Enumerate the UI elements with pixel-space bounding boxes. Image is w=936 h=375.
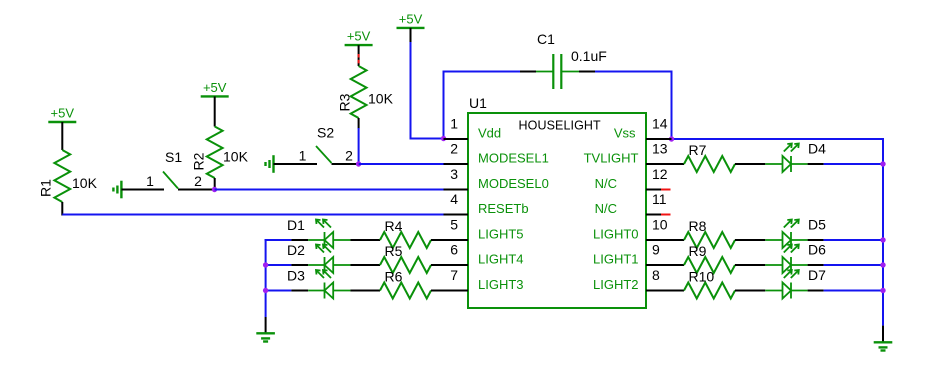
- wire rail to D1: [266, 239, 292, 241]
- svg-text:13: 13: [652, 141, 668, 157]
- svg-text:R1: R1: [38, 179, 54, 197]
- junction node D7/rail: [880, 288, 885, 293]
- IC U1 HOUSELIGHT body: [468, 113, 646, 308]
- svg-text:1: 1: [450, 116, 458, 132]
- svg-text:1: 1: [146, 173, 154, 189]
- LED D5: [765, 217, 826, 249]
- pin 8 (LIGHT2): [593, 267, 684, 292]
- junction node D4/rail: [880, 161, 885, 166]
- svg-text:R8: R8: [689, 218, 707, 234]
- svg-text:R10: R10: [689, 269, 715, 285]
- wire D6 to right rail: [824, 264, 883, 266]
- svg-text:+5V: +5V: [51, 106, 75, 121]
- ground (S1): [113, 181, 121, 199]
- svg-text:R6: R6: [385, 269, 403, 285]
- svg-text:LIGHT4: LIGHT4: [478, 252, 524, 267]
- svg-text:10K: 10K: [368, 91, 394, 107]
- svg-text:4: 4: [450, 191, 458, 207]
- ground (S2): [266, 155, 274, 173]
- wire to pin 3 (MODESEL0): [215, 189, 444, 191]
- pin 3 (MODESEL0): [444, 166, 549, 191]
- svg-text:10: 10: [652, 217, 668, 233]
- resistor R3 10K (with ERC marks): [337, 45, 394, 128]
- wire D5 to right rail: [824, 239, 883, 241]
- power +5V supply P1 (R1): [48, 106, 76, 123]
- junction node pin 1: [441, 136, 446, 141]
- pin 9 (LIGHT1): [593, 242, 684, 267]
- resistor R7: [684, 142, 765, 172]
- svg-text:S2: S2: [317, 125, 334, 141]
- pin 5 (LIGHT5): [444, 217, 524, 242]
- wire rail to ground: [265, 317, 267, 333]
- capacitor C1: [536, 31, 607, 89]
- svg-text:6: 6: [450, 242, 458, 258]
- power +5V supply P4 (above pin 1): [397, 11, 425, 43]
- power +5V supply P3 (R3): [345, 29, 373, 46]
- resistor R6: [350, 269, 468, 299]
- svg-text:R4: R4: [385, 218, 403, 234]
- wire rail to D3: [266, 290, 292, 292]
- svg-text:8: 8: [652, 267, 660, 283]
- pin 4 (RESETb): [444, 191, 529, 216]
- svg-text:S1: S1: [165, 149, 182, 165]
- LED D1: [287, 217, 350, 248]
- svg-text:10K: 10K: [72, 175, 98, 191]
- svg-text:D7: D7: [808, 267, 826, 283]
- svg-text:3: 3: [450, 166, 458, 182]
- svg-text:2: 2: [345, 148, 353, 164]
- wire to pin 2 (MODESEL1): [359, 163, 444, 165]
- wire pin14 node to right ground rail: [672, 139, 885, 326]
- ground (left LED rail): [256, 333, 275, 341]
- junction node D2/rail: [263, 262, 268, 267]
- wire +5V to pin 1 node: [410, 42, 444, 139]
- svg-text:5: 5: [450, 217, 458, 233]
- wire C1 to pin 14 node: [579, 71, 673, 140]
- svg-text:R3: R3: [337, 93, 353, 111]
- svg-text:TVLIGHT: TVLIGHT: [584, 151, 639, 166]
- svg-text:N/C: N/C: [595, 201, 617, 216]
- svg-text:D6: D6: [808, 242, 826, 258]
- svg-text:R7: R7: [689, 142, 707, 158]
- svg-text:9: 9: [652, 242, 660, 258]
- svg-text:Vss: Vss: [614, 126, 636, 141]
- pin 13 (TVLIGHT): [584, 141, 684, 166]
- junction node S2/R3: [356, 161, 361, 166]
- pin 1 (Vdd): [444, 116, 502, 141]
- svg-text:R2: R2: [191, 152, 207, 170]
- wire pin1 node up to C1: [443, 72, 537, 140]
- svg-text:+5V: +5V: [347, 29, 371, 44]
- junction node S1/R2: [212, 187, 217, 192]
- LED D7: [765, 267, 826, 299]
- resistor R8: [684, 218, 765, 248]
- wire D7 to right rail: [824, 290, 883, 292]
- svg-text:Vdd: Vdd: [478, 126, 501, 141]
- wire D4 to right rail: [824, 163, 883, 165]
- junction node D5/rail: [880, 237, 885, 242]
- svg-text:2: 2: [450, 141, 458, 157]
- resistor R2 10K: [191, 96, 249, 190]
- wire R1 to pin 4 (RESETb): [62, 214, 443, 216]
- power +5V supply P2 (R2): [201, 80, 229, 97]
- resistor R1 10K: [38, 122, 98, 216]
- svg-text:LIGHT1: LIGHT1: [593, 252, 639, 267]
- svg-text:C1: C1: [537, 31, 555, 47]
- pin 7 (LIGHT3): [444, 267, 524, 292]
- pin 14 (Vss): [614, 116, 672, 141]
- LED D3: [287, 268, 350, 299]
- svg-text:LIGHT0: LIGHT0: [593, 227, 639, 242]
- svg-text:R9: R9: [689, 243, 707, 259]
- resistor R5: [350, 243, 468, 273]
- svg-text:D2: D2: [287, 242, 305, 258]
- svg-text:+5V: +5V: [399, 11, 423, 26]
- svg-text:D4: D4: [808, 141, 826, 157]
- svg-text:+5V: +5V: [203, 80, 227, 95]
- pin 10 (LIGHT0): [593, 217, 684, 242]
- svg-text:R5: R5: [385, 243, 403, 259]
- LED D2: [287, 242, 350, 273]
- svg-text:7: 7: [450, 267, 458, 283]
- svg-text:2: 2: [194, 173, 202, 189]
- pin 11 (N/C): [595, 191, 671, 216]
- svg-text:D1: D1: [287, 217, 305, 233]
- svg-text:D5: D5: [808, 217, 826, 233]
- svg-text:D3: D3: [287, 268, 305, 284]
- ground (right rail): [874, 342, 893, 350]
- svg-text:N/C: N/C: [595, 176, 617, 191]
- svg-text:LIGHT2: LIGHT2: [593, 277, 639, 292]
- wire R3 to S2 junction: [358, 128, 360, 165]
- pin 2 (MODESEL1): [444, 141, 549, 166]
- pin 12 (N/C): [595, 166, 671, 191]
- switch S2: [274, 125, 359, 165]
- resistor R4: [350, 218, 468, 248]
- svg-text:11: 11: [652, 191, 667, 207]
- LED D6: [765, 242, 826, 274]
- svg-text:LIGHT5: LIGHT5: [478, 227, 524, 242]
- wire rail to D2: [266, 264, 292, 266]
- junction node pin 14: [669, 136, 674, 141]
- svg-text:1: 1: [299, 148, 307, 164]
- wire right rail to ground: [882, 326, 884, 343]
- resistor R10: [684, 269, 765, 299]
- svg-text:0.1uF: 0.1uF: [571, 48, 607, 64]
- svg-text:LIGHT3: LIGHT3: [478, 277, 524, 292]
- svg-text:HOUSELIGHT: HOUSELIGHT: [519, 119, 602, 133]
- svg-text:10K: 10K: [223, 149, 249, 165]
- junction node D3/rail: [263, 288, 268, 293]
- svg-text:MODESEL0: MODESEL0: [478, 176, 549, 191]
- svg-text:U1: U1: [469, 95, 487, 111]
- pin 6 (LIGHT4): [444, 242, 524, 267]
- junction node D6/rail: [880, 262, 885, 267]
- svg-text:RESETb: RESETb: [478, 201, 529, 216]
- svg-text:14: 14: [652, 116, 668, 132]
- switch S1: [121, 149, 214, 190]
- LED D4: [765, 141, 826, 173]
- svg-text:MODESEL1: MODESEL1: [478, 151, 549, 166]
- wire left LED rail: [265, 239, 267, 317]
- resistor R9: [684, 243, 765, 273]
- svg-text:12: 12: [652, 166, 668, 182]
